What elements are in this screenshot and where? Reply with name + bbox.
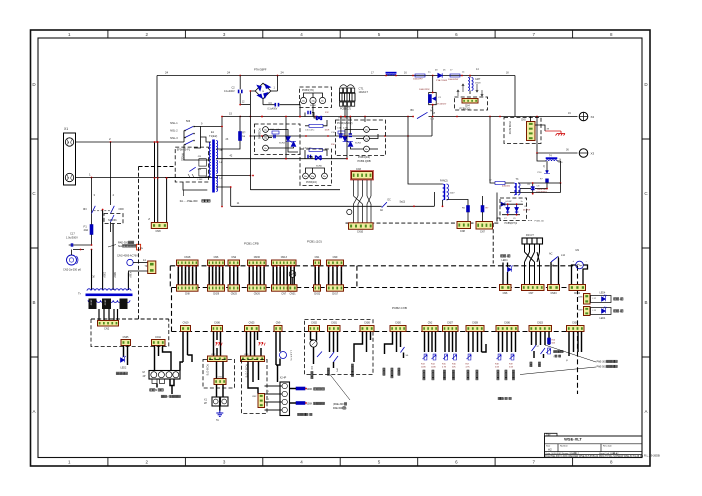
svg-text:CN7: CN7	[529, 292, 534, 295]
stub	[311, 339, 314, 341]
dashed machine boundary	[138, 167, 140, 320]
wire	[403, 353, 405, 359]
wire	[246, 332, 248, 357]
svg-text:FILE:PAE-300 C:ARC-WELDER WSE-: FILE:PAE-300 C:ARC-WELDER WSE-XLT-PCB-A2…	[545, 455, 644, 458]
wire R3C1 to bus B	[432, 105, 434, 117]
junction	[285, 116, 287, 118]
LED frame 1	[591, 296, 612, 303]
junction	[250, 116, 252, 118]
label fan assy	[161, 395, 163, 397]
CT1 top pins	[340, 88, 355, 93]
svg-text:2P: 2P	[204, 402, 207, 405]
svg-text:DC: DC	[388, 200, 392, 202]
connector CN6	[208, 260, 225, 265]
CN3 harness wires	[354, 180, 372, 223]
wires	[345, 130, 364, 137]
wire	[337, 332, 339, 353]
stub to ABC box	[364, 117, 366, 123]
svg-text:TA: TA	[216, 419, 219, 422]
wire	[304, 150, 306, 159]
wire	[369, 134, 378, 139]
SCR ring wires	[304, 93, 323, 97]
wire	[213, 332, 215, 357]
wire	[431, 332, 433, 353]
sel switch 2	[334, 356, 339, 362]
svg-text:LED2: LED2	[121, 368, 127, 370]
bus A component junctions	[385, 75, 463, 77]
winding block b	[199, 169, 206, 177]
wire	[467, 212, 469, 222]
junction 12	[239, 104, 241, 106]
PCB1 right dashed edge	[577, 266, 579, 394]
wire	[482, 196, 484, 206]
wire plug link	[73, 249, 84, 251]
svg-text:CN26: CN26	[254, 293, 261, 296]
pin wires CN13	[273, 265, 294, 284]
resistor R6	[467, 206, 470, 213]
svg-text:CN32: CN32	[314, 293, 321, 296]
LED red	[602, 307, 607, 314]
EF08 bottom wire	[183, 182, 207, 190]
bus A top	[157, 75, 515, 77]
thyristor SCR4b	[289, 140, 296, 146]
switch DC-AC main	[417, 112, 428, 118]
terminal block X1	[64, 133, 76, 185]
SCR ring 2	[319, 97, 325, 103]
svg-text:CN1: CN1	[218, 377, 223, 379]
socket X1 blocks	[212, 397, 228, 406]
transformer T3 winding R	[518, 183, 520, 195]
L3 bar	[386, 72, 397, 74]
svg-text:F1: F1	[84, 225, 88, 229]
svg-text:CN9: CN9	[578, 310, 583, 312]
wire	[435, 332, 437, 353]
svg-text:30F: 30F	[198, 169, 202, 171]
wire bend	[482, 344, 487, 352]
plug CN2-2a-250	[67, 255, 77, 265]
wire	[366, 332, 368, 353]
diode pair D45	[317, 116, 322, 120]
wire to X3	[537, 152, 578, 154]
svg-text:44g: 44g	[311, 101, 314, 103]
label filter	[298, 413, 300, 415]
module PCB6-CFB	[203, 360, 235, 389]
svg-text:CN8: CN8	[460, 230, 465, 233]
inlet connector red	[137, 244, 141, 250]
module PCB3(A-B-C2)	[336, 120, 386, 156]
socket pin circle	[282, 391, 287, 396]
svg-text:CN36: CN36	[214, 323, 221, 325]
wire FAN right to R6	[447, 200, 469, 206]
dashed boundary drop	[492, 223, 494, 263]
connector CN2	[98, 321, 119, 327]
svg-text:R.L.J-9-26DB: R.L.J-9-26DB	[644, 454, 660, 458]
resistor small	[548, 338, 551, 344]
svg-text:47u/450V: 47u/450V	[437, 104, 447, 106]
svg-text:C17: C17	[70, 232, 75, 236]
aux plug P1	[127, 259, 133, 265]
wire	[351, 147, 364, 149]
wire	[333, 332, 335, 353]
wire	[127, 346, 129, 366]
svg-text:MSL-2: MSL-2	[170, 130, 178, 133]
note arrow	[108, 245, 116, 248]
wire	[310, 332, 312, 341]
X2 plus	[579, 112, 588, 121]
svg-text:T1(E2): T1(E2)	[209, 134, 217, 138]
svg-text:CN26: CN26	[364, 323, 371, 325]
junctions x222	[221, 116, 223, 208]
svg-text:CN2: CN2	[252, 396, 257, 398]
svg-text:4.7K: 4.7K	[466, 367, 471, 369]
wire M1 left	[572, 265, 576, 285]
T1 primary winding	[209, 142, 210, 177]
wire	[548, 332, 550, 346]
pot R18	[498, 354, 501, 360]
dashed edge	[171, 288, 173, 332]
wire	[396, 332, 398, 353]
capacitor C15	[308, 111, 311, 114]
wire CN9 down	[128, 271, 147, 273]
wire to CN8 c	[166, 178, 168, 223]
wire	[505, 182, 514, 184]
svg-text:1000/2PV: 1000/2PV	[413, 79, 423, 81]
wire X1-U to MSL	[76, 141, 185, 143]
LED frame 2	[591, 308, 612, 315]
svg-text:MSL-1: MSL-1	[170, 122, 178, 125]
wire to ground	[545, 130, 561, 132]
svg-text:GMT: GMT	[475, 78, 481, 81]
svg-text:M: M	[143, 370, 145, 374]
switch group MSL	[185, 127, 193, 145]
C8 junctions	[532, 182, 534, 195]
R3C1 frame	[429, 93, 437, 105]
wire bend	[354, 332, 363, 363]
svg-text:CN33: CN33	[550, 292, 557, 295]
wire to X2	[515, 116, 578, 118]
ammeter needle	[311, 341, 315, 345]
svg-text:100A/1T: 100A/1T	[359, 91, 369, 94]
svg-text:CN6: CN6	[214, 256, 219, 259]
wire CN2b to CN1b a	[216, 362, 218, 379]
junction	[305, 388, 307, 390]
wire	[455, 332, 457, 353]
svg-text:PCB3(2/4): PCB3(2/4)	[306, 182, 317, 184]
rail 183	[518, 182, 547, 184]
junction	[110, 141, 112, 143]
SCR ring B2	[322, 173, 328, 179]
svg-text:PCB1.(1/2): PCB1.(1/2)	[307, 240, 322, 244]
bus A junctions	[239, 75, 278, 77]
wire T4 down	[557, 161, 561, 183]
current transformer CT1 body	[340, 93, 356, 101]
motor M1	[576, 261, 584, 269]
wire bus to R3C1	[432, 76, 434, 93]
feeder x347	[346, 117, 348, 159]
wire	[507, 263, 509, 268]
module PCB3(6-6)	[255, 124, 301, 155]
wire	[370, 332, 372, 341]
svg-text:CN17: CN17	[332, 293, 339, 296]
wire CN3b down b	[258, 362, 260, 381]
connector CN3	[352, 172, 373, 180]
connector CN23	[529, 326, 552, 332]
svg-text:FR-CT: FR-CT	[526, 233, 534, 237]
wire	[275, 332, 277, 352]
R3C1 junctions	[432, 92, 434, 118]
wire V to T1 primary bottom	[165, 176, 211, 179]
wire link	[547, 182, 561, 184]
wire C3 to bus B	[280, 105, 301, 117]
svg-text:SCR4: SCR4	[279, 143, 286, 145]
connector CN4	[462, 99, 478, 104]
svg-text:44c: 44c	[321, 101, 324, 103]
junction	[469, 75, 471, 77]
svg-text:U: U	[67, 140, 69, 144]
pin wires CN2	[230, 265, 238, 284]
svg-text:Z: Z	[148, 217, 150, 221]
junction	[250, 90, 252, 92]
pointer	[520, 367, 596, 375]
connector CN6b	[500, 285, 512, 291]
wire 0V down	[102, 210, 104, 291]
dashed boundary top	[139, 166, 176, 168]
wire	[268, 137, 272, 139]
svg-text:LED4: LED4	[600, 318, 606, 320]
connector CN36	[248, 260, 267, 265]
wire	[546, 161, 548, 171]
wire snub	[304, 113, 306, 117]
pot R17	[468, 354, 471, 360]
wire to C2	[239, 76, 241, 90]
transformer T3 winding L	[514, 183, 516, 195]
gate drive box EF08-25-P1	[175, 147, 208, 182]
wire	[515, 332, 517, 353]
pin junctions	[328, 266, 342, 267]
connector CN1	[314, 260, 321, 265]
wire	[546, 183, 548, 189]
svg-text:(PAE-300: (PAE-300	[333, 403, 344, 406]
wire R1a to T1 sec	[216, 141, 240, 150]
switch L12	[551, 257, 558, 263]
svg-text:AC: AC	[380, 209, 384, 212]
wire	[531, 332, 533, 346]
wire bridge out up	[277, 76, 279, 92]
LED power	[121, 356, 126, 363]
svg-text:230V: 230V	[103, 272, 106, 278]
wire bus to R1a	[239, 117, 241, 132]
wire stub	[309, 157, 312, 159]
wire	[323, 120, 327, 126]
svg-text:18.5V: 18.5V	[90, 300, 92, 306]
svg-text:5.6K: 5.6K	[509, 367, 514, 369]
wire	[182, 332, 184, 363]
svg-text:V: V	[67, 176, 69, 180]
svg-text:34g: 34g	[311, 176, 314, 178]
PCB1 left dashed edge	[169, 266, 171, 288]
capacitor C1 polarized	[432, 96, 436, 101]
label green	[614, 298, 616, 300]
resistor R1a	[239, 132, 242, 141]
svg-text:100K: 100K	[307, 403, 313, 406]
wire Tr secondary to CN2	[108, 309, 110, 321]
pot R20	[548, 348, 551, 354]
svg-text:SCR4: SCR4	[355, 143, 362, 145]
wire	[171, 386, 173, 395]
earth ground	[216, 411, 223, 417]
svg-text:PCB3(2/4): PCB3(2/4)	[358, 155, 370, 159]
capacitor C8	[531, 187, 535, 189]
svg-text:FAN(2): FAN(2)	[440, 180, 448, 183]
pin wires CN6	[209, 265, 223, 284]
connector CN11	[152, 340, 166, 346]
socket pin circle	[282, 383, 287, 388]
connector CN2c	[422, 326, 438, 332]
FAN core	[444, 184, 445, 200]
module PCB6(2-2)	[455, 97, 488, 110]
row2 dashed edge	[172, 331, 578, 333]
svg-text:CN28: CN28	[472, 323, 479, 325]
wire bridge out	[271, 90, 278, 92]
svg-text:PCB6 BCB2: PCB6 BCB2	[508, 121, 511, 135]
connector CN24	[567, 326, 585, 332]
wire to C3	[263, 104, 275, 106]
svg-text:SCR0: SCR0	[316, 166, 323, 168]
CN4 arrows	[457, 90, 483, 96]
CT1 bottom pins	[340, 102, 355, 106]
svg-text:CN5: CN5	[521, 120, 526, 122]
junction	[156, 141, 158, 143]
junction	[91, 244, 93, 246]
connector CN7b	[522, 285, 545, 291]
resistor R3	[428, 95, 431, 103]
svg-text:506: 506	[186, 120, 191, 123]
wire	[305, 125, 309, 127]
PCB1 bottom dashed edge	[172, 287, 578, 289]
meter circle	[289, 271, 296, 278]
wire	[170, 379, 174, 386]
connector CN2v	[258, 394, 265, 408]
svg-text:L-2-4 R.TC: L-2-4 R.TC	[290, 350, 292, 361]
connector CN10	[349, 223, 374, 230]
wire	[519, 189, 521, 193]
transformer FAN winding L	[443, 184, 445, 200]
junction	[536, 116, 538, 118]
svg-text:AC: AC	[549, 253, 553, 256]
wire bridge bottom	[262, 99, 264, 105]
wire CN3b to CN2v a	[248, 362, 258, 394]
wire	[444, 332, 446, 353]
wire FAN down	[442, 200, 444, 206]
FR-CT harness	[525, 244, 540, 285]
svg-text:CN2: CN2	[231, 256, 236, 259]
capacitor C14	[274, 135, 275, 138]
wire	[581, 332, 583, 353]
motor pins	[152, 379, 165, 384]
svg-text:PCB3(4E/4L): PCB3(4E/4L)	[339, 118, 352, 120]
svg-text:4.7K: 4.7K	[442, 367, 447, 369]
transformer GMT winding	[468, 78, 470, 91]
T1 secondary winding a	[216, 141, 218, 159]
svg-text:26: 26	[262, 91, 264, 93]
wire	[257, 332, 259, 341]
label dianyuan	[116, 372, 119, 375]
svg-text:24: 24	[165, 71, 169, 75]
svg-text:PCB1.CD: PCB1.CD	[535, 221, 545, 223]
wire bend	[180, 362, 183, 371]
svg-text:100K/2PW: 100K/2PW	[419, 89, 430, 91]
svg-text:AC: AC	[430, 110, 434, 113]
svg-text:Sa(2): Sa(2)	[400, 202, 406, 204]
svg-text:18.5V: 18.5V	[104, 300, 106, 306]
junction	[305, 402, 307, 404]
feeder	[431, 117, 433, 137]
wire	[220, 332, 222, 357]
CT1 coil	[340, 85, 354, 87]
svg-text:CN2: CN2	[211, 354, 216, 356]
wire	[502, 263, 504, 285]
svg-text:1000/0PW: 1000/0PW	[448, 79, 459, 81]
connector CN28	[466, 326, 484, 332]
wire tap down	[112, 224, 114, 291]
riser x434	[433, 192, 435, 206]
pin wires CN1	[315, 265, 319, 284]
wire	[568, 352, 570, 356]
wire	[333, 362, 335, 368]
svg-text:1.0u/300V: 1.0u/300V	[66, 236, 78, 240]
svg-text:CN36: CN36	[504, 323, 511, 325]
wire	[154, 346, 156, 371]
drawing frame outer border	[31, 30, 651, 466]
dashed Tr box top	[91, 318, 169, 320]
connector CN32	[314, 285, 321, 291]
wire to C8	[532, 183, 534, 186]
winding block a	[199, 159, 206, 166]
spark marks 2	[258, 342, 265, 345]
svg-text:CN10: CN10	[357, 231, 364, 234]
svg-text:44/2000: 44/2000	[502, 186, 511, 188]
terminal U	[65, 138, 73, 146]
svg-text:B: B	[644, 300, 647, 305]
wire bottom rail	[510, 192, 561, 194]
ferrite ring	[347, 209, 352, 214]
dashed harness boundary	[346, 222, 500, 224]
svg-text:CN2-2a-250 φ6: CN2-2a-250 φ6	[63, 268, 82, 272]
svg-text:CN32: CN32	[311, 323, 318, 325]
wire	[506, 332, 508, 353]
wire lamp to X2-4P	[277, 365, 279, 382]
diode D4 vertical	[515, 204, 518, 215]
wire	[369, 129, 378, 131]
bus C junctions	[261, 135, 409, 137]
feeder cap a	[340, 117, 342, 134]
connector CN3b	[241, 356, 265, 362]
wire	[156, 384, 158, 388]
wire	[123, 346, 125, 358]
svg-text:CN9: CN9	[276, 323, 281, 325]
wire fuse down	[91, 235, 93, 246]
svg-text:PCB3(6/6): PCB3(6/6)	[258, 128, 261, 139]
capacitor C3	[275, 103, 278, 107]
SCR ring L1	[263, 135, 269, 141]
svg-text:M: M	[155, 389, 157, 392]
wire	[550, 262, 552, 285]
capacitor C2	[239, 90, 242, 94]
svg-text:24: 24	[281, 71, 285, 75]
resistor 100K b	[296, 402, 305, 405]
connector CN9 side	[148, 261, 156, 274]
SCR ring B0	[303, 173, 309, 179]
